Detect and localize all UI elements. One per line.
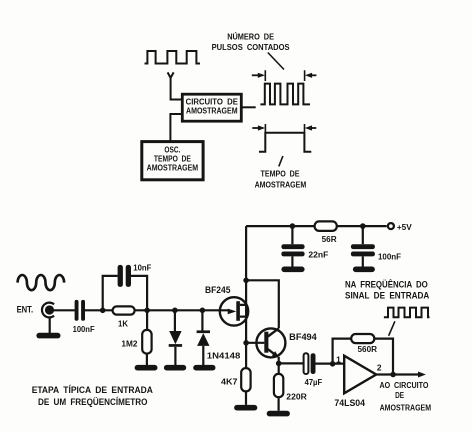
capacitor C3 22nF xyxy=(291,226,293,266)
wire node A up to C2 xyxy=(103,276,118,310)
svg-text:AMOSTRAGEM: AMOSTRAGEM xyxy=(380,403,432,413)
wire C1 to node A xyxy=(85,309,113,311)
svg-text:PULSOS CONTADOS: PULSOS CONTADOS xyxy=(212,42,290,52)
node J (inverter input) xyxy=(330,361,336,367)
svg-text:TEMPO DE: TEMPO DE xyxy=(154,154,192,163)
resistor R4 4K7 xyxy=(245,343,247,405)
input jack J1 outer ring xyxy=(42,303,54,318)
wire sampling circuit output xyxy=(241,106,255,108)
wire rail node C to node D xyxy=(175,309,228,311)
leader slash to gate xyxy=(279,156,283,166)
wire node I to C5 xyxy=(279,362,304,364)
dimension ticks gate xyxy=(265,124,304,132)
transistor Q2 BF494 body xyxy=(256,328,285,357)
wire inverter output xyxy=(376,373,418,375)
svg-text:BF494: BF494 xyxy=(289,332,317,342)
svg-text:100nF: 100nF xyxy=(73,324,95,334)
wire OSC to sampling circuit xyxy=(170,114,182,142)
svg-text:DE: DE xyxy=(395,390,404,400)
Q1 drain/source stubs xyxy=(240,305,246,317)
capacitor C1 100nF plates xyxy=(75,300,79,321)
wire feedback loop 560R xyxy=(333,339,393,375)
wire base Q2 xyxy=(246,342,264,344)
wire node E to Q2 collector xyxy=(246,280,279,328)
antenna input Y xyxy=(168,72,183,99)
resistor R1 1K xyxy=(113,306,135,314)
svg-text:220R: 220R xyxy=(286,392,307,402)
Q2 emitter diagonal xyxy=(268,349,277,356)
svg-text:CIRCUITO DE: CIRCUITO DE xyxy=(186,97,239,106)
ground (D2) xyxy=(193,365,215,371)
ground (input jack) xyxy=(36,333,60,339)
capacitor C5 47uF negative plate xyxy=(304,353,309,374)
svg-text:AO CIRCUITO: AO CIRCUITO xyxy=(380,380,429,390)
svg-text:10nF: 10nF xyxy=(133,263,151,273)
svg-text:AMOSTRAGEM: AMOSTRAGEM xyxy=(255,180,307,190)
wire Q1 vertical drain-source xyxy=(245,280,247,343)
resistor R2 1M2 xyxy=(142,330,151,354)
svg-text:NÚMERO DE: NÚMERO DE xyxy=(227,31,274,42)
wire jack to C1 xyxy=(53,309,75,311)
wire C2 to node B xyxy=(131,276,147,310)
svg-text:1N4148: 1N4148 xyxy=(207,351,241,361)
svg-text:4K7: 4K7 xyxy=(221,377,238,387)
node K (output) xyxy=(390,372,396,378)
wire R1 to node B xyxy=(135,309,175,311)
ground (R5) xyxy=(267,411,290,417)
node E (drain) xyxy=(243,278,249,284)
resistor R5 220R xyxy=(278,363,280,410)
svg-text:NA FREQÜÊNCIA DO: NA FREQÜÊNCIA DO xyxy=(345,279,428,290)
output arrowhead xyxy=(418,372,426,378)
wire C5 to node J xyxy=(316,363,345,365)
block U_B OSC. TEMPO DE AMOSTRAGEM xyxy=(142,142,203,180)
input jack J1 center pin xyxy=(45,305,54,314)
resistor R6 560R xyxy=(351,334,374,343)
terminal +5V xyxy=(388,223,394,229)
node B xyxy=(144,308,150,314)
Q1 channel bar xyxy=(236,301,240,321)
svg-text:47µF: 47µF xyxy=(305,377,323,387)
svg-text:2: 2 xyxy=(377,362,382,372)
node I (emitter) xyxy=(276,361,282,367)
node C xyxy=(172,308,178,314)
inverter U1 74LS04 xyxy=(344,356,376,394)
sampling gate waveform xyxy=(259,133,311,152)
svg-text:AMOSTRAGEM: AMOSTRAGEM xyxy=(147,164,199,173)
svg-text:SINAL DE ENTRADA: SINAL DE ENTRADA xyxy=(345,291,430,301)
svg-text:22nF: 22nF xyxy=(308,250,328,260)
ground (R4) xyxy=(234,405,257,411)
Q2 base bar xyxy=(264,332,268,353)
svg-text:BF245: BF245 xyxy=(205,285,230,295)
svg-text:100nF: 100nF xyxy=(378,252,401,262)
Q2 emitter arrowhead xyxy=(272,351,279,358)
diode D2 1N4148 xyxy=(197,330,210,333)
Q2 collector diagonal xyxy=(268,328,279,336)
svg-text:1: 1 xyxy=(336,355,341,365)
svg-text:ETAPA TÍPICA DE ENTRADA: ETAPA TÍPICA DE ENTRADA xyxy=(32,385,154,395)
svg-text:AMOSTRAGEM: AMOSTRAGEM xyxy=(186,107,238,116)
node F (source) xyxy=(243,340,249,346)
diode D1 xyxy=(169,331,181,344)
transistor Q1 BF245 body xyxy=(220,297,248,325)
Q1 gate arrow xyxy=(228,309,237,315)
leader line to counted pulses xyxy=(268,53,284,70)
ground (R2) xyxy=(135,365,158,371)
block U_A CIRCUITO DE AMOSTRAGEM xyxy=(182,94,241,121)
svg-text:ENT.: ENT. xyxy=(17,304,33,314)
dimension ticks counted pulses xyxy=(265,70,304,81)
node A xyxy=(100,308,106,314)
input sine wave xyxy=(18,275,65,290)
node H (100nF tap) xyxy=(360,223,366,229)
svg-text:1M2: 1M2 xyxy=(121,339,137,349)
svg-text:OSC.: OSC. xyxy=(164,146,180,155)
dimension arrow right counted pulses xyxy=(312,74,317,76)
wire node B to R2 xyxy=(146,310,148,365)
dimension arrow left gate xyxy=(252,127,258,129)
input signal square wave xyxy=(145,51,201,64)
svg-text:+5V: +5V xyxy=(397,222,412,232)
svg-text:TEMPO DE: TEMPO DE xyxy=(261,168,300,178)
svg-text:1K: 1K xyxy=(118,319,129,329)
ground (C3) xyxy=(281,267,304,273)
svg-text:56R: 56R xyxy=(322,234,338,244)
wire node C to D1 xyxy=(174,310,177,365)
output frequency waveform xyxy=(384,308,430,318)
wire jack to ground xyxy=(49,317,51,333)
ground (C4) xyxy=(353,267,375,273)
svg-text:74LS04: 74LS04 xyxy=(334,398,365,408)
dimension arrow left counted pulses xyxy=(252,74,258,76)
wire +V rail xyxy=(246,226,387,280)
counted pulses waveform xyxy=(260,84,310,105)
wire node D to D2 xyxy=(201,310,204,365)
resistor R3 56R xyxy=(315,221,337,231)
capacitor C4 100nF xyxy=(362,226,364,266)
node G (22nF tap) xyxy=(290,223,296,229)
dimension arrow right gate xyxy=(312,127,317,129)
svg-text:560R: 560R xyxy=(358,344,378,354)
node D xyxy=(200,308,206,314)
wire emitter to node I xyxy=(278,357,280,364)
svg-text:DE UM FREQÜENCÍMETRO: DE UM FREQÜENCÍMETRO xyxy=(38,397,147,407)
leader slash to output waveform xyxy=(389,321,395,336)
capacitor C2 10nF plates xyxy=(118,265,123,287)
capacitor C5 47uF positive plate xyxy=(311,353,316,374)
ground (D1) xyxy=(164,365,186,371)
